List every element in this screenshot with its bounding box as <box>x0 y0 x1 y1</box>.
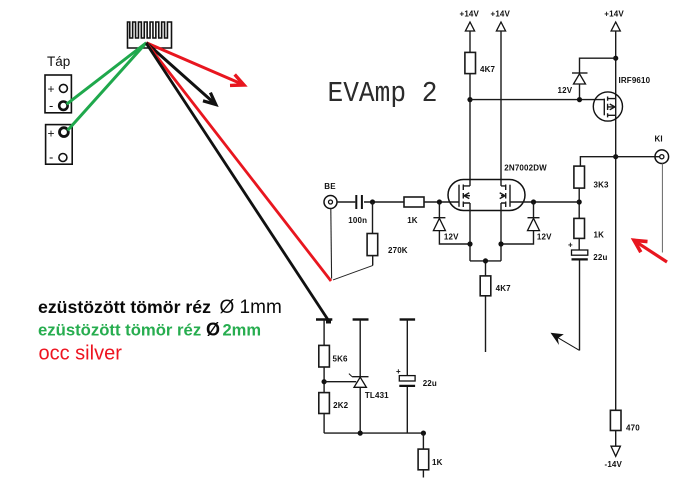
wire green J2 to heatsink <box>68 43 147 131</box>
arrow red short <box>146 43 243 85</box>
svg-text:+14V: +14V <box>460 10 480 19</box>
node feedback <box>577 199 582 204</box>
node TL431 anode <box>358 431 363 436</box>
wire 1K bottom <box>422 470 424 478</box>
terminal bar 2 <box>353 318 369 320</box>
resistor R10 470 <box>610 410 621 430</box>
svg-text:+14V: +14V <box>491 10 511 19</box>
wire gate bus <box>470 99 604 101</box>
resistor R6 1K <box>574 218 585 238</box>
svg-text:+: + <box>396 367 401 376</box>
svg-text:Táp: Táp <box>47 54 70 69</box>
wire cap to node <box>364 201 404 203</box>
wire 470 to -14V <box>615 431 617 447</box>
node source left <box>467 241 472 246</box>
wire 5K6 to 2K2 <box>323 367 325 393</box>
wire BE to cap <box>337 201 355 203</box>
Q1 left fet <box>458 185 460 207</box>
wire ref to TL431 <box>324 381 356 383</box>
wire rail2 <box>500 31 502 186</box>
svg-text:1K: 1K <box>407 216 418 225</box>
wire sources join <box>470 261 501 276</box>
wire output to 3K3 <box>580 157 615 166</box>
wire 270K stub <box>372 256 374 266</box>
resistor R8 2K2 <box>319 393 330 414</box>
J1 terminal + <box>59 84 67 92</box>
node sources <box>483 258 488 263</box>
terminal bar 1 <box>316 318 332 320</box>
svg-text:KI: KI <box>655 135 663 144</box>
svg-text:IRF9610: IRF9610 <box>619 76 651 85</box>
power +14V rail 3 arrow <box>611 22 620 31</box>
svg-text:22u: 22u <box>593 253 607 262</box>
svg-text:+14V: +14V <box>604 10 624 19</box>
svg-text:270K: 270K <box>388 246 408 255</box>
wire bar1 to 5K6 <box>323 320 325 346</box>
node drain1 <box>467 97 472 102</box>
wire to KI <box>616 156 655 158</box>
svg-text:4K7: 4K7 <box>496 284 512 293</box>
wire 2K2 down <box>323 414 325 434</box>
wire 3K3 to node <box>578 188 580 218</box>
resistor R4 4K7 <box>480 276 491 296</box>
wire bar3 to 22u <box>406 320 408 376</box>
power -14V arrow <box>611 446 620 456</box>
node output <box>613 154 618 159</box>
svg-text:occ silver: occ silver <box>39 343 123 365</box>
regulator U1 TL431 <box>352 376 368 378</box>
svg-text:4K7: 4K7 <box>480 65 496 74</box>
heatsink <box>128 22 172 48</box>
node gate Q3 <box>577 97 582 102</box>
zener D2 12V <box>533 202 535 218</box>
svg-text:22u: 22u <box>423 379 437 388</box>
svg-text:2mm: 2mm <box>223 322 262 340</box>
svg-text:EVAmp 2: EVAmp 2 <box>328 77 438 110</box>
wire 22u down <box>406 387 408 433</box>
transistor Q3 IRF9610 <box>593 92 622 121</box>
resistor R9 1K <box>422 433 424 449</box>
wire 1K to gate <box>424 201 459 203</box>
J2 terminal - <box>59 154 67 162</box>
svg-text:+: + <box>48 82 55 96</box>
svg-text:12V: 12V <box>537 233 552 242</box>
node source Q3 <box>613 56 618 61</box>
power +14V rail 1 arrow <box>465 22 474 31</box>
arrow black annotation thin <box>553 335 580 351</box>
wire rail3 / output line <box>615 31 617 410</box>
svg-text:2K2: 2K2 <box>333 401 349 410</box>
node input <box>370 199 375 204</box>
wire rail1 <box>469 31 471 52</box>
resistor R2 270K <box>367 234 378 256</box>
terminal bar 3 <box>400 318 416 320</box>
svg-text:5K6: 5K6 <box>333 355 349 364</box>
capacitor C1 100n <box>356 195 362 209</box>
power +14V rail 2 arrow <box>496 22 505 31</box>
resistor R3 1K <box>404 197 424 207</box>
node 1K top <box>421 431 426 436</box>
wire 4K7 tail <box>485 296 487 352</box>
svg-text:12V: 12V <box>558 86 573 95</box>
svg-text:100n: 100n <box>348 216 367 225</box>
resistor R7 5K6 <box>319 345 330 367</box>
wire node to 270K <box>372 202 374 234</box>
svg-text:1K: 1K <box>594 231 605 240</box>
wire green J1 to heatsink <box>67 43 147 104</box>
node source right <box>498 241 503 246</box>
svg-text:470: 470 <box>626 423 640 432</box>
connector J2 box <box>46 125 73 165</box>
wire 1K to cap <box>578 238 580 250</box>
J1 terminal - <box>59 102 67 110</box>
svg-text:-14V: -14V <box>605 460 623 469</box>
wire bar2 to TL431 <box>359 320 361 377</box>
arrow red annotation right <box>635 241 668 262</box>
node ref <box>322 379 327 384</box>
svg-text:ezüstözött tömör réz: ezüstözött tömör réz <box>38 297 211 317</box>
wire KI return <box>661 163 663 252</box>
svg-text:-: - <box>49 98 53 113</box>
wire gate right <box>510 201 579 203</box>
wire black long to regulator node <box>146 43 328 320</box>
svg-text:Ø 1mm: Ø 1mm <box>220 297 282 318</box>
wire cap down <box>579 261 581 351</box>
zener D1 12V <box>438 202 440 218</box>
node gate right <box>531 199 536 204</box>
wire ground rail <box>324 432 423 434</box>
svg-text:3K3: 3K3 <box>594 181 610 190</box>
svg-text:2N7002DW: 2N7002DW <box>504 164 547 173</box>
node gate left <box>437 199 442 204</box>
wire red long to input node <box>147 44 331 282</box>
svg-text:BE: BE <box>324 182 336 191</box>
svg-text:1K: 1K <box>432 458 443 467</box>
connector J1 box <box>45 75 71 113</box>
wire rail1 to drain <box>469 74 471 186</box>
wire BE ground stub <box>330 208 333 278</box>
J2 terminal + <box>60 128 69 137</box>
svg-text:+: + <box>568 241 573 250</box>
Q2 right fet <box>509 185 511 207</box>
wire zener3 top <box>580 58 616 73</box>
resistor R1 4K7 <box>465 52 476 73</box>
svg-text:TL431: TL431 <box>365 391 389 400</box>
svg-text:Ø: Ø <box>206 320 220 340</box>
wire thin link to ground node <box>333 265 373 280</box>
resistor R5 3K3 <box>574 166 585 188</box>
svg-text:+: + <box>48 127 55 141</box>
zener D3 12V <box>572 72 588 74</box>
arrow black short <box>146 43 215 105</box>
svg-text:-: - <box>49 150 53 165</box>
svg-text:12V: 12V <box>444 233 459 242</box>
svg-text:ezüstözött tömör réz: ezüstözött tömör réz <box>38 321 201 340</box>
